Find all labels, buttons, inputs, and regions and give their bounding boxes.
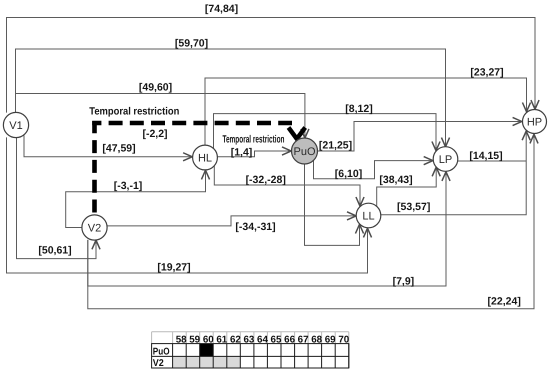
V2 row gray cells 58-62 [173,356,241,368]
svg-text:[-32,-28]: [-32,-28] [246,174,286,186]
wire V1-LP [59,70] [16,49,446,147]
svg-text:[-2,2]: [-2,2] [142,128,167,140]
edge labels [38,3,520,308]
svg-text:LP: LP [439,154,452,166]
header numbers [176,334,350,345]
svg-text:HL: HL [198,153,212,165]
svg-text:[47,59]: [47,59] [102,143,135,155]
wire V1-LL [19,27] [7,137,368,273]
svg-text:[38,43]: [38,43] [379,174,412,186]
PuO black cell col 60 [200,344,214,357]
wire PuO-HP [21,25] [318,122,522,152]
svg-text:V2: V2 [88,223,101,235]
table row labels [153,346,170,369]
node V1 [3,112,28,137]
svg-text:[7,9]: [7,9] [393,275,415,287]
wire V2-HL [-3,-1] [66,170,206,227]
svg-text:Temporal restriction: Temporal restriction [223,134,285,146]
svg-text:[8,12]: [8,12] [345,103,372,115]
svg-text:Temporal restriction: Temporal restriction [89,105,179,117]
node LP [433,147,458,172]
svg-text:[-34,-31]: [-34,-31] [235,221,275,233]
wire V1-V2 [50,61] [17,137,97,258]
wire V1-HL [47,59] [24,135,192,157]
wire V1-PuO [49,60] [16,94,305,138]
svg-text:[50,61]: [50,61] [38,245,71,257]
wire LL-LP [38,43] [377,167,437,206]
temporal restriction dashed arrow V2-PuO [92,121,305,213]
node PuO [292,138,318,164]
wire V1-HP [74,84] [7,18,536,113]
wire LL-HP [53,57] [381,131,526,215]
data grid black [152,344,349,368]
wire PuO-LP [6,10] [314,160,433,178]
wire HL-LP [8,12] [214,114,437,151]
svg-text:[74,84]: [74,84] [205,3,238,15]
wire HL-PuO [1,4] [217,151,291,157]
svg-text:[49,60]: [49,60] [139,82,172,94]
svg-text:PuO: PuO [153,346,170,357]
timeline table [152,332,350,369]
svg-text:[59,70]: [59,70] [175,37,208,49]
svg-text:PuO: PuO [293,146,315,158]
node V2 [82,215,107,240]
wire HL-LL [-32,-28] [214,166,360,206]
svg-text:[1,4]: [1,4] [231,147,253,159]
wire V2-LP [7,9] [88,172,446,286]
wire V2-LL [-34,-31] [107,216,356,226]
svg-text:[6,10]: [6,10] [335,168,362,180]
wire PuO-LL [305,164,360,245]
table header row (light grid) [152,332,349,344]
svg-text:[21,25]: [21,25] [319,139,352,151]
svg-text:[23,27]: [23,27] [470,66,503,78]
node LL [356,203,381,228]
svg-text:V1: V1 [9,120,22,132]
svg-text:HP: HP [527,117,542,129]
svg-text:[19,27]: [19,27] [157,261,190,273]
node HP [523,110,547,134]
svg-text:V2: V2 [153,358,165,369]
wire HL-HP [23,27] [205,78,527,145]
wire LP-HP [14,15] [458,160,526,162]
svg-text:[14,15]: [14,15] [469,150,502,162]
svg-text:[-3,-1]: [-3,-1] [114,180,143,192]
svg-text:[53,57]: [53,57] [397,201,430,213]
node HL [193,145,218,170]
wire V2-HP [22,24] [88,134,534,308]
svg-text:[22,24]: [22,24] [488,296,521,308]
svg-text:LL: LL [362,211,374,223]
